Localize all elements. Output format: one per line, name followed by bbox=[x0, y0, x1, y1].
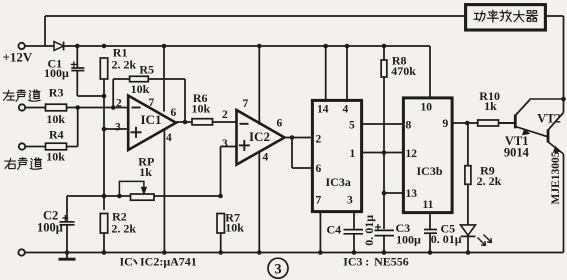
svg-text:2: 2 bbox=[116, 98, 122, 110]
svg-text:2. 2k: 2. 2k bbox=[112, 58, 137, 72]
svg-text:9014: 9014 bbox=[504, 146, 530, 160]
svg-text:IC3a: IC3a bbox=[326, 175, 351, 189]
svg-text:100μ: 100μ bbox=[37, 221, 63, 235]
svg-text:0. 01μ: 0. 01μ bbox=[362, 215, 376, 246]
svg-text:3: 3 bbox=[274, 262, 281, 278]
svg-text:7: 7 bbox=[316, 195, 322, 207]
svg-text:1: 1 bbox=[350, 148, 356, 160]
svg-text:8: 8 bbox=[406, 120, 412, 132]
svg-text:NE556: NE556 bbox=[374, 255, 409, 269]
svg-text:2. 2k: 2. 2k bbox=[477, 174, 502, 188]
svg-text:R3: R3 bbox=[49, 85, 64, 99]
svg-text:10: 10 bbox=[421, 102, 433, 114]
svg-text:4: 4 bbox=[343, 104, 349, 116]
svg-text:IC1: IC1 bbox=[141, 112, 162, 127]
svg-text:IC3: IC3 bbox=[343, 255, 362, 269]
svg-text:10k: 10k bbox=[46, 112, 65, 126]
svg-text:9: 9 bbox=[443, 118, 449, 130]
svg-text:4: 4 bbox=[166, 132, 172, 144]
svg-text:+12V: +12V bbox=[3, 50, 33, 65]
svg-text:14: 14 bbox=[317, 104, 329, 116]
svg-text:1k: 1k bbox=[484, 99, 497, 113]
svg-text:10k: 10k bbox=[192, 102, 211, 116]
svg-text:IC2: IC2 bbox=[249, 129, 270, 144]
svg-text:2. 2k: 2. 2k bbox=[111, 222, 136, 236]
svg-text:VT2: VT2 bbox=[537, 111, 561, 125]
svg-text:2: 2 bbox=[316, 134, 322, 146]
svg-text:12: 12 bbox=[406, 148, 418, 160]
svg-text:0. 01μ: 0. 01μ bbox=[431, 232, 462, 246]
svg-text:3: 3 bbox=[222, 138, 228, 150]
svg-text:100μ: 100μ bbox=[396, 232, 421, 246]
svg-text:6: 6 bbox=[277, 118, 283, 130]
svg-text:1k: 1k bbox=[139, 165, 152, 179]
svg-text:2: 2 bbox=[222, 109, 228, 121]
svg-text:IC2:μA741: IC2:μA741 bbox=[140, 254, 197, 268]
svg-text:MJE13005: MJE13005 bbox=[550, 151, 562, 204]
svg-text:5: 5 bbox=[349, 120, 355, 132]
svg-text:R5: R5 bbox=[139, 63, 154, 77]
svg-text::: : bbox=[365, 255, 369, 269]
svg-text:13: 13 bbox=[406, 188, 418, 200]
svg-text:C4: C4 bbox=[327, 223, 342, 237]
svg-text:100μ: 100μ bbox=[44, 66, 69, 80]
svg-text:3: 3 bbox=[347, 195, 353, 207]
svg-text:IC3b: IC3b bbox=[417, 164, 443, 178]
svg-text:10k: 10k bbox=[46, 150, 65, 164]
svg-text:6: 6 bbox=[171, 107, 177, 119]
svg-text:7: 7 bbox=[149, 97, 155, 109]
svg-text:4: 4 bbox=[263, 152, 269, 164]
svg-text:3: 3 bbox=[115, 122, 121, 134]
svg-text:6: 6 bbox=[316, 163, 322, 175]
svg-text:IC: IC bbox=[120, 254, 133, 268]
svg-text:7: 7 bbox=[243, 98, 249, 110]
svg-text:470k: 470k bbox=[391, 64, 416, 78]
svg-text:R4: R4 bbox=[49, 128, 64, 142]
svg-text:10k: 10k bbox=[131, 82, 150, 96]
svg-text:11: 11 bbox=[423, 199, 434, 211]
svg-text:10k: 10k bbox=[225, 221, 244, 235]
